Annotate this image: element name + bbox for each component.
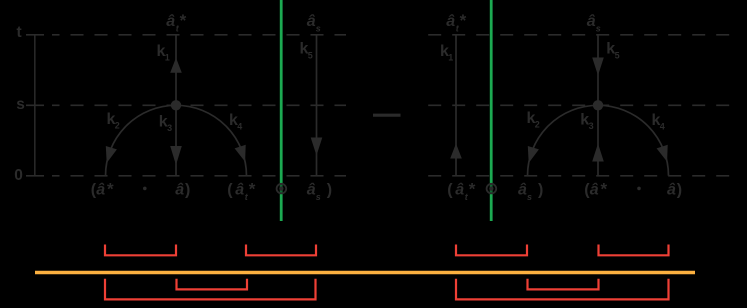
svg-text:2: 2 <box>115 121 120 131</box>
wire k5 (right): t down to vertex <box>597 35 599 106</box>
arrowhead k5 (right, down) <box>592 58 604 76</box>
wire k1 (left): vertex up to t <box>175 35 177 106</box>
arrowhead k1 (left, up) <box>170 58 182 73</box>
contraction bracket top 1 (left: a^* with a) <box>105 245 176 256</box>
svg-text:*: * <box>180 11 187 30</box>
svg-text:â: â <box>175 181 184 198</box>
dashed level line t (right) <box>428 34 740 36</box>
svg-text:s: s <box>16 96 25 113</box>
svg-text:(: ( <box>227 181 233 198</box>
svg-text:*: * <box>249 179 256 198</box>
svg-text:â: â <box>518 181 527 198</box>
contraction bracket bottom large (left: a^* with a_s) <box>105 279 316 300</box>
contraction bracket bottom large (right: a_t^* with a) <box>456 279 669 300</box>
contraction bracket top 3 (right: a_t^* with a_s) <box>456 245 527 256</box>
arrowhead k2 (right, down along arc) <box>528 146 539 163</box>
vertex dot (right diagram) <box>593 100 603 110</box>
svg-text:0: 0 <box>14 167 23 184</box>
contraction bracket bottom small (left: a with a_t^*) <box>177 279 248 290</box>
dashed level line s (left) <box>52 104 346 106</box>
svg-text:): ) <box>185 181 190 198</box>
circled-dot operator symbol (left) <box>277 184 287 194</box>
dashed level line 0 (left) <box>52 175 346 177</box>
svg-text:s: s <box>316 23 321 33</box>
dashed level line 0 (right) <box>428 175 740 177</box>
axis tick t <box>26 34 44 36</box>
svg-text:â: â <box>587 13 596 30</box>
wire k3 (right): 0 up to vertex <box>597 105 599 176</box>
arrowhead k3 (left, down) <box>170 146 182 165</box>
axis tick s <box>26 104 44 106</box>
svg-text:): ) <box>677 181 682 198</box>
orange baseline <box>35 271 695 274</box>
arrowhead k2 (left, down along arc) <box>106 146 117 163</box>
svg-text:â: â <box>307 181 316 198</box>
svg-text:â: â <box>235 181 244 198</box>
svg-text:5: 5 <box>615 50 620 60</box>
svg-text:â: â <box>307 13 316 30</box>
svg-text:(: ( <box>447 181 453 198</box>
svg-text:â: â <box>166 13 175 30</box>
contraction bracket top 2 (left: a_t^* with a_s) <box>246 245 316 256</box>
svg-text:): ) <box>538 181 543 198</box>
svg-text:*: * <box>107 179 114 198</box>
svg-text:5: 5 <box>308 50 313 60</box>
svg-text:): ) <box>327 181 332 198</box>
wire k3 (left): vertex down to 0 <box>175 105 177 176</box>
circled-dot operator symbol (right) <box>487 184 497 194</box>
arrowhead k1 (right, up) <box>450 144 462 159</box>
svg-text:s: s <box>527 192 532 202</box>
arrowhead k4 (right, down along arc) <box>657 145 668 162</box>
wire k1 (right): 0 up to t <box>455 35 457 176</box>
arrowhead k5 (left, down) <box>311 138 323 156</box>
arc k4 (left dome, east half) <box>176 105 247 176</box>
svg-text:*: * <box>469 179 476 198</box>
svg-text:4: 4 <box>660 122 665 132</box>
svg-text:*: * <box>601 179 608 198</box>
svg-text:â: â <box>96 181 105 198</box>
arrowhead k3 (right, up) <box>592 144 604 162</box>
green cut line (left) <box>280 0 283 221</box>
dashed level line s (right) <box>428 104 740 106</box>
svg-text:â: â <box>455 181 464 198</box>
green cut line (right) <box>490 0 493 221</box>
vertex dot (left diagram) <box>171 100 181 110</box>
svg-text:1: 1 <box>448 53 453 63</box>
arrowhead k4 (left, down along arc) <box>235 145 246 162</box>
svg-text:1: 1 <box>165 53 170 63</box>
svg-text:4: 4 <box>237 122 242 132</box>
svg-text:2: 2 <box>535 120 540 130</box>
arc k4 (right dome, east half) <box>598 105 669 176</box>
arc k2 (left dome, west half) <box>106 105 177 176</box>
contraction bracket bottom small (right: a_s with a^*) <box>528 279 599 290</box>
time axis (left diagram) <box>34 35 36 176</box>
svg-text:t: t <box>17 24 22 41</box>
wire k5 (left): t down to 0 <box>316 35 318 176</box>
svg-text:*: * <box>460 11 467 30</box>
svg-text:s: s <box>596 23 601 33</box>
axis tick 0 <box>26 175 44 177</box>
svg-text:â: â <box>590 181 599 198</box>
arc k2 (right dome, west half) <box>528 105 599 176</box>
svg-text:s: s <box>316 192 321 202</box>
dashed level line t (left) <box>52 34 346 36</box>
svg-text:â: â <box>667 181 676 198</box>
svg-text:3: 3 <box>589 121 594 131</box>
minus sign between diagrams <box>373 114 401 117</box>
svg-text:â: â <box>446 13 455 30</box>
contraction bracket top 4 (right: a^* with a) <box>599 245 669 256</box>
svg-text:3: 3 <box>167 123 172 133</box>
